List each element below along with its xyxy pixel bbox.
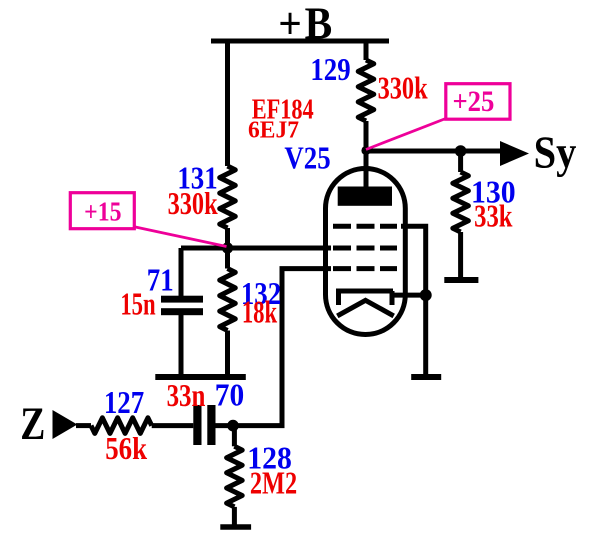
node +15 junction dot — [222, 242, 233, 253]
designator 127 — [104, 386, 145, 421]
wire down to capacitor 71 — [179, 248, 184, 296]
svg-text:33n: 33n — [167, 378, 206, 414]
svg-text:15n: 15n — [120, 287, 156, 323]
node +25 junction dot — [361, 146, 370, 155]
svg-text:Sy: Sy — [534, 129, 577, 178]
svg-text:330k: 330k — [168, 187, 218, 222]
label +B — [278, 0, 335, 49]
resistor 131 (330k) — [220, 166, 236, 228]
callout box +15 — [70, 193, 134, 229]
label Z — [20, 398, 45, 450]
capacitor 71 (15n) — [161, 296, 203, 316]
wire g3 to right (suppressor tie) — [401, 226, 426, 295]
designator 131 — [177, 162, 217, 197]
cathode of V25 — [336, 291, 393, 305]
grid g3 dashed row — [333, 224, 397, 229]
anode plate of V25 — [338, 187, 392, 206]
heater of V25 — [337, 300, 393, 316]
ground bar under cathode — [411, 374, 441, 380]
value 330k of 129 — [378, 72, 428, 107]
svg-text:33k: 33k — [474, 200, 512, 235]
svg-text:330k: 330k — [378, 72, 428, 107]
value 56k of 127 — [105, 432, 147, 467]
callout leader +25 — [366, 118, 447, 150]
resistor 129 (330k) — [358, 60, 374, 121]
wire node +25 to Sy arrow — [366, 149, 502, 154]
svg-text:127: 127 — [104, 386, 145, 421]
value 2M2 of 128 — [250, 466, 297, 501]
ground bar under capacitor 71 and resistor 132 — [155, 374, 246, 380]
designator 71 — [147, 263, 174, 298]
wire grid node to resistor 128 — [232, 426, 237, 447]
wire anode lead (node +25 into tube) — [364, 151, 369, 190]
+B supply rail — [211, 39, 389, 44]
wire capacitor 70 to grid node — [216, 423, 234, 428]
resistor 128 (2M2) — [227, 446, 243, 507]
grid g2 dashed row — [333, 246, 397, 251]
label Sy — [534, 129, 577, 178]
svg-text:18k: 18k — [242, 295, 278, 331]
wire resistor 132 to ground bar — [225, 331, 230, 376]
ground bar under resistor 128 — [220, 524, 251, 530]
junction on Sy line to resistor 130 — [455, 145, 467, 157]
svg-text:V25: V25 — [284, 142, 330, 177]
wire resistor 130 to ground — [458, 232, 463, 278]
value 33n of 70 — [167, 378, 206, 414]
wire input arrow to resistor 127 — [76, 423, 91, 428]
grid node junction dot — [227, 420, 239, 432]
callout box +25 — [446, 84, 510, 120]
callout text +25 — [452, 86, 494, 119]
value 15n of 71 — [120, 287, 156, 323]
value 18k of 132 — [242, 295, 278, 331]
resistor 127 (56k) — [91, 418, 152, 434]
input arrow Z — [53, 410, 78, 439]
svg-text:Z: Z — [20, 398, 45, 450]
wire resistor 128 to ground — [232, 507, 237, 525]
designator 128 — [247, 440, 292, 476]
wire resistor 129 to node +25 — [364, 121, 369, 151]
designator 70 — [215, 377, 244, 412]
designator V25 — [284, 142, 330, 177]
svg-text:70: 70 — [215, 377, 244, 412]
value 330k of 131 — [168, 187, 218, 222]
wire cathode lead to junction — [392, 293, 426, 298]
wire node +15 to resistor 132 — [225, 248, 230, 269]
cathode/g3 junction dot — [420, 289, 432, 301]
svg-text:56k: 56k — [105, 432, 147, 467]
grid g1 dashed row — [333, 266, 397, 271]
svg-text:+25: +25 — [452, 86, 494, 119]
tube type 6EJ7 — [248, 117, 299, 143]
wire resistor 131 to node +15 — [225, 228, 230, 248]
wire node +15 to g2 — [181, 246, 331, 251]
capacitor 70 (33n) — [193, 405, 215, 445]
svg-text:129: 129 — [310, 53, 350, 88]
wire grid node to g1 riser — [233, 269, 331, 426]
resistor 130 (33k) — [453, 172, 469, 232]
wire +B rail to resistor 129 — [364, 41, 369, 60]
value 33k of 130 — [474, 200, 512, 235]
designator 129 — [310, 53, 350, 88]
callout text +15 — [84, 196, 121, 227]
wire capacitor 71 to ground bar — [179, 315, 184, 375]
wire junction to ground — [423, 295, 428, 375]
tube type EF184 — [252, 93, 314, 125]
wire resistor 127 to capacitor 70 — [152, 423, 194, 428]
svg-text:2M2: 2M2 — [250, 466, 297, 501]
wire +B rail to resistor 131 — [225, 41, 230, 166]
tube V25 envelope — [326, 169, 406, 335]
ground bar under resistor 130 — [444, 277, 478, 283]
svg-text:+B: +B — [278, 0, 335, 49]
svg-text:6EJ7: 6EJ7 — [248, 117, 299, 143]
designator 130 — [471, 174, 516, 210]
designator 132 — [241, 277, 281, 312]
svg-text:+15: +15 — [84, 196, 121, 227]
callout leader +15 — [133, 227, 227, 247]
wire junction to resistor 130 — [458, 151, 463, 172]
output arrow Sy — [500, 141, 529, 166]
resistor 132 (18k) — [220, 269, 236, 331]
